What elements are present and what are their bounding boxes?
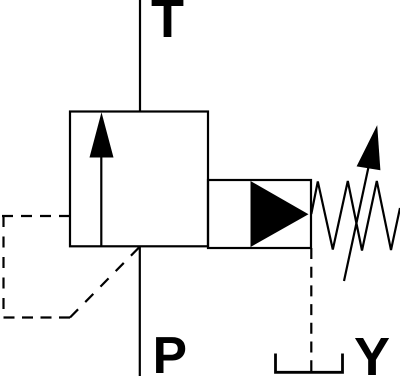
pilot line dashed left — [2, 216, 4, 318]
adjustment arrow shaft — [344, 167, 369, 281]
tank symbol — [276, 354, 343, 373]
spring — [311, 181, 400, 251]
main valve body — [70, 112, 208, 247]
drain line dashed Y — [310, 248, 312, 371]
flow arrow shaft — [100, 155, 102, 246]
flow arrow head — [90, 112, 114, 157]
adjustment arrow head — [357, 125, 381, 170]
svg-text:Y: Y — [354, 327, 390, 376]
pilot line dashed bottom — [4, 316, 71, 318]
wire P port line — [139, 246, 141, 376]
pilot line dashed diagonal — [70, 248, 139, 318]
pilot line dashed top — [2, 215, 70, 217]
wire T port line — [139, 0, 141, 112]
svg-text:T: T — [151, 0, 184, 49]
svg-text:P: P — [153, 326, 187, 376]
check valve body — [208, 180, 311, 248]
check valve poppet triangle — [251, 181, 309, 247]
